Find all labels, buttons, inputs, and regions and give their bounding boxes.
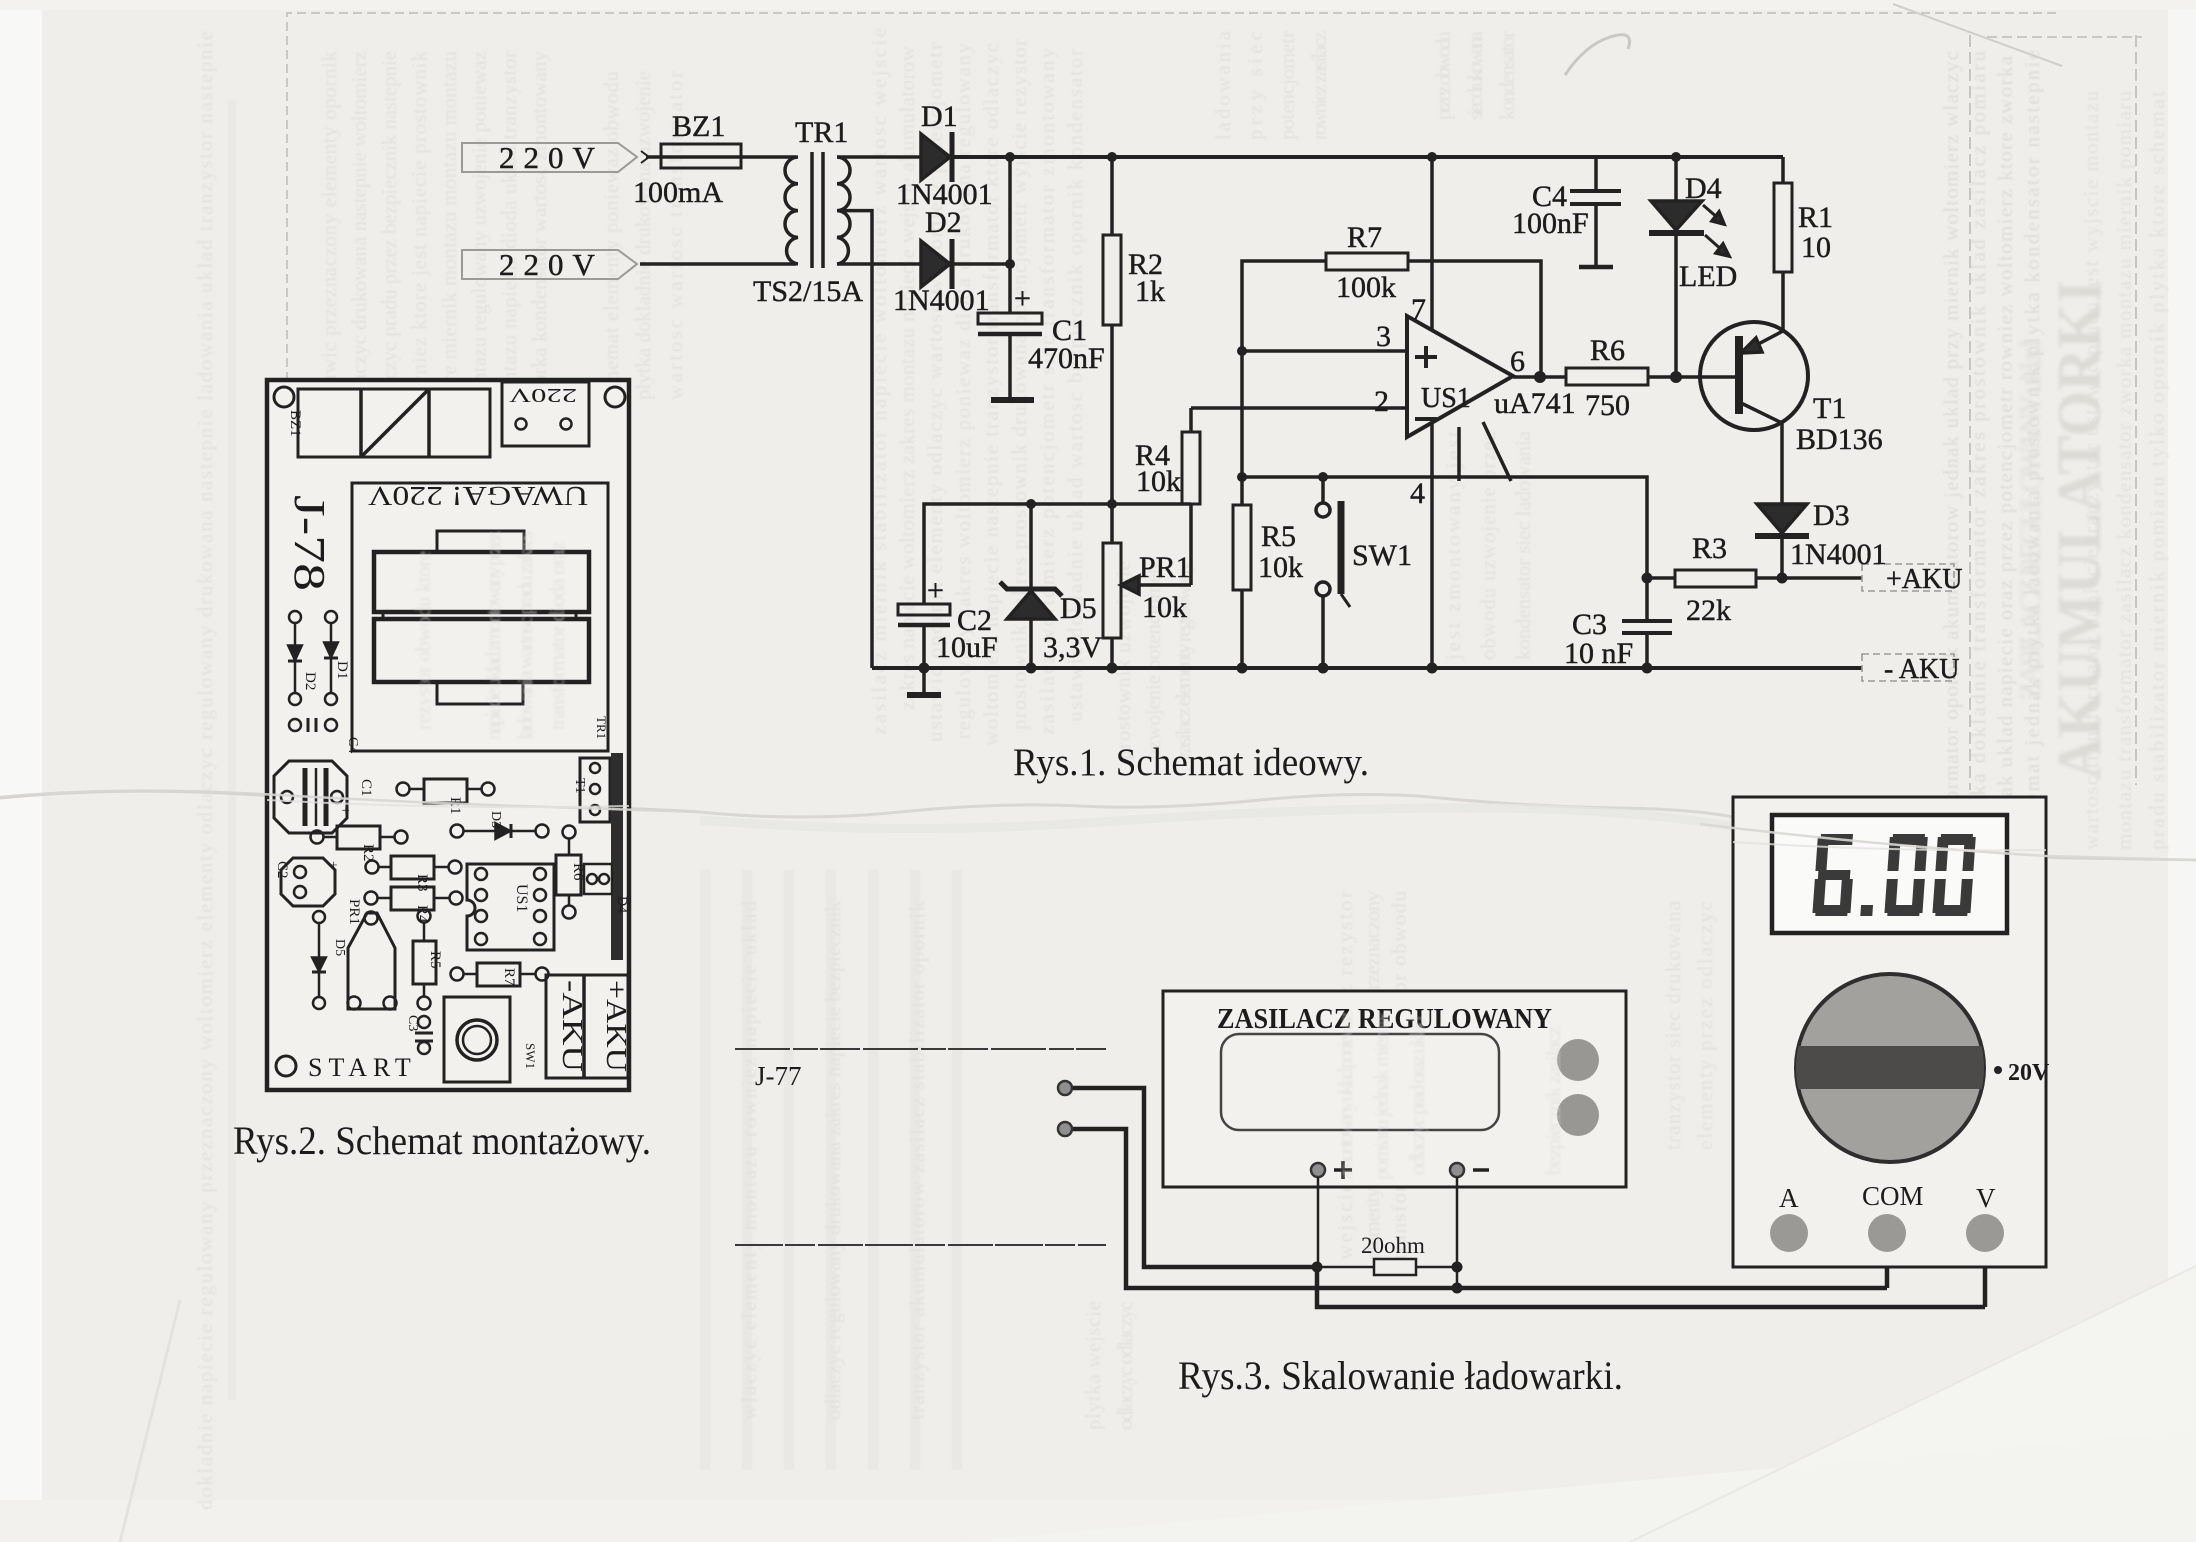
faint page frame line top (287, 13, 2060, 395)
wire V up (1983, 1252, 1988, 1307)
svg-text:10k: 10k (1258, 551, 1303, 584)
potentiometer PR1 body (1103, 543, 1121, 638)
lower-right underlying page corner (1630, 1265, 2196, 1542)
svg-text:2: 2 (1374, 385, 1389, 418)
svg-text:R5: R5 (1261, 520, 1296, 553)
LED arrows (1703, 205, 1719, 219)
svg-text:10k: 10k (1136, 465, 1181, 498)
7-seg reading 6.00 (1812, 834, 1976, 916)
svg-text:ladowania: ladowania (1211, 30, 1235, 140)
svg-text:siec drukowana: siec drukowana (1463, 30, 1487, 120)
switch SW1 (pcb) (444, 997, 510, 1082)
svg-text:zworka kondensator wartosc zmo: zworka kondensator wartosc zmontowany (527, 50, 551, 410)
svg-text:J-78: J-78 (285, 495, 334, 591)
svg-text:Rys.2. Schemat montażowy.: Rys.2. Schemat montażowy. (233, 1118, 651, 1163)
junction D4 anode on top rail (1671, 152, 1681, 162)
svg-text:obwodu uzwojenie przez: obwodu uzwojenie przez (1476, 430, 1500, 660)
junction R2 top on top rail (1107, 152, 1117, 162)
svg-text:D5: D5 (332, 939, 347, 956)
resistor R1 (pcb) (397, 783, 410, 796)
charger output pin 1 (1058, 1081, 1072, 1095)
wire pin6 (1513, 375, 1566, 379)
junction R2/PR1 on divider node (1107, 499, 1117, 509)
svg-text:10: 10 (1801, 231, 1831, 264)
svg-text:kondensator: kondensator (1495, 30, 1519, 120)
wire R6 to base (1648, 375, 1737, 379)
diode D3 (pcb) (451, 825, 464, 838)
capacitor C4 (pcb pads) (289, 719, 301, 731)
wire center tap (842, 211, 872, 668)
svg-text:rowniez ktore jest napiecie pr: rowniez ktore jest napiecie prostownik (407, 50, 431, 410)
svg-text:+: + (1014, 282, 1031, 315)
svg-text:220V: 220V (499, 247, 604, 282)
svg-text:transformator opornik akumulat: transformator opornik akumulatorow jedna… (1939, 50, 1963, 856)
pcb board outline (267, 380, 629, 1090)
op-amp +/- symbols (1415, 346, 1437, 419)
svg-text:220V: 220V (508, 384, 577, 406)
svg-text:ktore miernik montazu montazu: ktore miernik montazu montazu montazu (437, 50, 461, 410)
junction R5 on ground rail (1237, 663, 1248, 674)
diagonal edge bottom right (1630, 1266, 2196, 1542)
svg-text:bezpiecznik zasilacz: bezpiecznik zasilacz (1541, 1025, 1565, 1175)
pin4 wire (1430, 423, 1434, 668)
labels Rys.1 (499, 100, 1962, 685)
resistor R6 (pcb) (563, 826, 576, 839)
zener D5 (1029, 504, 1033, 589)
svg-text:- AKU: - AKU (1884, 654, 1959, 685)
svg-text:100k: 100k (1336, 271, 1396, 304)
transformer TR1 core (810, 152, 814, 268)
svg-text:20ohm: 20ohm (1361, 1233, 1425, 1258)
wire mains top (641, 151, 649, 163)
resistor R4 (1189, 408, 1193, 432)
svg-text:D3: D3 (1813, 499, 1850, 532)
svg-text:J-77: J-77 (755, 1061, 802, 1091)
svg-text:tranzystor akumulatorow zasila: tranzystor akumulatorow zasilacz stabili… (905, 900, 929, 1420)
svg-text:D1: D1 (921, 100, 958, 133)
resistor R5 (pcb) (418, 910, 431, 923)
+ output terminal (1311, 1163, 1325, 1177)
capacitor C3 (pcb) (418, 1016, 430, 1028)
svg-text:R3: R3 (414, 874, 430, 892)
wire divider node (C2 D5 R2 R4) (924, 504, 1191, 604)
svg-text:R7: R7 (1347, 221, 1382, 254)
svg-text:US1: US1 (1421, 383, 1471, 414)
faint bleed inside board (411, 530, 569, 740)
svg-text:ladowania wartosc pradu zakres: ladowania wartosc pradu zakres (513, 530, 537, 740)
svg-text:T1: T1 (1813, 392, 1846, 425)
svg-text:potencjometr: potencjometr (1275, 30, 1299, 140)
diode D2 (pcb) (289, 611, 301, 623)
mounting hole top-right (605, 387, 625, 407)
svg-text:3,3V: 3,3V (1043, 631, 1103, 664)
svg-text:kondensator siec ladowania: kondensator siec ladowania (1511, 430, 1535, 660)
svg-text:US1: US1 (513, 884, 530, 912)
transformer block TR1 (352, 483, 608, 751)
svg-text:ustawic przeznaczony elementy: ustawic przeznaczony elementy opornik (317, 50, 341, 410)
svg-text:100nF: 100nF (1512, 207, 1589, 240)
junction SW1 on ground rail (1318, 663, 1329, 674)
svg-text:D3: D3 (488, 811, 503, 828)
svg-text:10k: 10k (1142, 591, 1187, 624)
fuse BZ1 (661, 144, 741, 168)
svg-text:Rys.1. Schemat ideowy.: Rys.1. Schemat ideowy. (1013, 741, 1369, 784)
svg-text:3: 3 (1376, 320, 1391, 353)
wire secondary top to D1 (837, 155, 921, 159)
svg-text:schemat elementy poniewaz obwo: schemat elementy poniewaz obwodu (599, 70, 623, 400)
svg-text:R4: R4 (414, 905, 430, 923)
wire pin2 to - node (1073, 1129, 1887, 1288)
svg-text:wlaczyc pradu przez bezpieczni: wlaczyc pradu przez bezpiecznik nastepni… (377, 50, 401, 410)
svg-text:SW1: SW1 (1352, 539, 1412, 572)
svg-text:V: V (1976, 1183, 1996, 1213)
svg-text:C1: C1 (358, 779, 374, 797)
svg-text:1N4001: 1N4001 (1790, 538, 1887, 571)
svg-text:plytka dokladnie drukowana uzw: plytka dokladnie drukowana uzwojenie (631, 70, 655, 400)
terminal A (1770, 1214, 1808, 1252)
wire COM up (1885, 1252, 1890, 1288)
op-amp US1 (pcb) (467, 864, 554, 950)
junction pin6 output (1534, 371, 1546, 383)
svg-text:odlaczyc drukowana nastepnie w: odlaczyc drukowana nastepnie woltomierz (347, 50, 371, 410)
junction C2 on ground rail (919, 663, 930, 674)
resistor R1 (1781, 157, 1785, 183)
capacitor C1 (electrolytic) (1008, 264, 1012, 313)
svg-text:D5: D5 (1060, 592, 1097, 625)
wire pin3 node rail (1242, 477, 1647, 578)
svg-text:C3: C3 (405, 1015, 420, 1031)
svg-text:10 nF: 10 nF (1564, 637, 1633, 670)
mains wires to charger (735, 1048, 1106, 1050)
svg-text:470nF: 470nF (1028, 342, 1105, 375)
junction D5 on ground rail (1026, 663, 1037, 674)
svg-text:-AKU: -AKU (556, 980, 588, 1072)
diode D3 (1757, 504, 1807, 533)
svg-text:pradu stabilizator miernik pom: pradu stabilizator miernik pomiaru tylko… (2145, 90, 2169, 850)
svg-text:rowniez zasilacz: rowniez zasilacz (1307, 30, 1331, 140)
svg-text:montazu regulowany uzwojenie p: montazu regulowany uzwojenie poniewaz (467, 50, 491, 410)
display window (1221, 1034, 1499, 1130)
svg-text:220V: 220V (499, 140, 604, 175)
svg-text:ZASILACZ REGULOWANY uklad: ZASILACZ REGULOWANY uklad (2014, 340, 2047, 700)
mounting hole top-left (274, 387, 294, 407)
switch SW1 (1321, 477, 1325, 503)
wire pin1 to + node (1073, 1088, 1317, 1267)
capacitor C2 (electrolytic) (898, 604, 950, 615)
resistor R3 (pcb) (366, 861, 379, 874)
diode D1 (921, 134, 950, 180)
svg-text:transformator dioda oraz: transformator dioda oraz (545, 540, 569, 730)
svg-text:20V: 20V (2008, 1060, 2050, 1086)
page right edge line (1969, 35, 1971, 790)
transformer TR1 secondary (837, 157, 850, 264)
svg-text:T1: T1 (572, 778, 587, 794)
junction pin7 on top rail (1427, 152, 1437, 162)
terminal -AKU (1862, 654, 1954, 681)
svg-text:+: + (927, 574, 944, 607)
svg-text:100mA: 100mA (633, 176, 723, 209)
node: 220V input tag bottom (462, 250, 637, 279)
creases over artwork (0, 791, 700, 812)
junction LED cathode / base wire (1670, 371, 1682, 383)
wire to +AKU (1782, 576, 1862, 580)
svg-text:rezystor obwodu ktore: rezystor obwodu ktore (411, 550, 435, 730)
svg-text:R6: R6 (570, 863, 586, 881)
svg-text:6: 6 (1510, 345, 1525, 378)
junction pin3 (1237, 346, 1247, 356)
wire D2 output up to top rail (952, 157, 1010, 264)
svg-text:R1: R1 (1798, 201, 1833, 234)
wire mains bottom (640, 262, 796, 266)
svg-text:+: + (325, 861, 340, 869)
svg-text:4: 4 (1410, 477, 1425, 510)
faint scribble top right (1565, 35, 1630, 75)
charger output pin 2 (1058, 1122, 1072, 1136)
svg-text:+AKU: +AKU (600, 980, 632, 1072)
svg-text:D4: D4 (1685, 172, 1722, 205)
svg-text:PR1: PR1 (1139, 551, 1191, 584)
resistor R7 (pcb) (451, 968, 464, 981)
20V marker (1994, 1066, 2002, 1074)
svg-text:odlaczyc prad oraz uklad: odlaczyc prad oraz uklad (1405, 1015, 1429, 1175)
svg-text:odlaczyc odlaczyc: odlaczyc odlaczyc (1113, 1300, 1137, 1430)
220V connector (502, 382, 589, 446)
svg-text:jest zmontowany jest: jest zmontowany jest (1441, 430, 1465, 661)
wire + node down to V line (1317, 1267, 1985, 1307)
resistor R5 (1233, 505, 1251, 590)
svg-text:22k: 22k (1686, 594, 1731, 627)
svg-text:BZ1: BZ1 (287, 410, 303, 437)
ground under C1 (991, 397, 1034, 403)
svg-text:pomiaru jednak miernik: pomiaru jednak miernik (1369, 1010, 1393, 1180)
svg-text:1k: 1k (1135, 275, 1165, 308)
terminal +AKU (1862, 564, 1954, 681)
svg-text:przy siec: przy siec (1243, 30, 1267, 140)
horizontal fold/tear across page (0, 791, 700, 812)
svg-text:PR1: PR1 (346, 899, 362, 925)
transformer TR1 primary (785, 157, 798, 264)
capacitor C3 (1622, 619, 1672, 623)
svg-text:7: 7 (1411, 293, 1426, 326)
junction dots rys3 (1312, 1262, 1463, 1294)
svg-text:AKUMULATORKI: AKUMULATORKI (2046, 280, 2114, 780)
svg-text:COM: COM (1862, 1181, 1924, 1211)
svg-text:10uF: 10uF (936, 631, 998, 664)
svg-text:zasilacz elementy regulowany: zasilacz elementy regulowany (1171, 560, 1195, 760)
resistor R2 (1110, 157, 1114, 235)
junction R3/C3 node (1642, 573, 1653, 584)
range dial (1796, 974, 1984, 1162)
svg-text:montazu transformator zasilacz: montazu transformator zasilacz kondensat… (2112, 90, 2136, 850)
svg-text:wlaczyc elementy montazu rowni: wlaczyc elementy montazu rowniez napieci… (737, 900, 761, 1420)
svg-text:elementy przez odlaczyc: elementy przez odlaczyc (1693, 900, 1717, 1150)
svg-text:R2: R2 (360, 844, 376, 862)
svg-text:C4: C4 (345, 737, 360, 753)
AKU connector (pcb) (546, 975, 628, 1078)
wire pin2 (1191, 406, 1407, 410)
svg-text:D1: D1 (334, 661, 350, 679)
svg-text:uzwojenie potencjometr: uzwojenie potencjometr (1141, 560, 1165, 760)
svg-text:tranzystor siec drukowana: tranzystor siec drukowana (1661, 900, 1685, 1150)
wire top rail (952, 155, 1783, 159)
svg-text:R5: R5 (427, 951, 443, 969)
svg-text:LED: LED (1679, 260, 1737, 293)
node: 220V input tag top (462, 143, 637, 172)
svg-text:przez obwodu: przez obwodu (1431, 30, 1455, 120)
svg-text:BZ1: BZ1 (672, 110, 725, 143)
svg-text:SW1: SW1 (523, 1043, 538, 1069)
svg-text:R7: R7 (501, 968, 517, 986)
junction D1/D2 output on top rail (1005, 152, 1015, 162)
svg-text:Rys.3. Skalowanie ładowarki.: Rys.3. Skalowanie ładowarki. (1178, 1353, 1623, 1398)
junction R5 top node (1237, 472, 1247, 482)
svg-text:zmontowany uklad poniewaz: zmontowany uklad poniewaz (1333, 1010, 1357, 1180)
resistor R6 (1566, 368, 1648, 385)
op-amp US1 triangle (1407, 316, 1513, 437)
capacitor C1 (pcb) (274, 761, 347, 833)
transistor T1 BD136 (1700, 322, 1808, 430)
svg-text:750: 750 (1585, 389, 1630, 422)
resistor R4 (pcb) (365, 892, 378, 905)
knob 2 (1557, 1094, 1599, 1136)
svg-text:R3: R3 (1692, 532, 1727, 565)
svg-text:START: START (308, 1053, 417, 1082)
faint streaks inside ZASILACZ box (1333, 1010, 1565, 1180)
junction dots (919, 152, 1788, 674)
diode D5 (pcb) (313, 911, 325, 923)
svg-text:+AKU: +AKU (1886, 564, 1962, 595)
svg-text:plytka wejscie: plytka wejscie (1081, 1300, 1105, 1430)
capacitor C4 (1594, 157, 1598, 191)
svg-text:+: + (337, 806, 353, 814)
diode D2 (921, 241, 950, 287)
LED D4 (1674, 157, 1678, 201)
wire pin3 (1242, 349, 1407, 353)
diode D1 (pcb) (325, 611, 337, 623)
svg-text:A: A (1779, 1183, 1799, 1213)
solder strip bar (611, 753, 623, 960)
potentiometer PR1 (pcb) (348, 913, 395, 1009)
wire R7 right to pin6 (1408, 261, 1541, 377)
svg-text:uA741: uA741 (1494, 387, 1576, 420)
capacitor C2 (pcb) (281, 858, 335, 906)
svg-text:dokladnie napiecie regulowany: dokladnie napiecie regulowany przeznaczo… (193, 30, 217, 1510)
svg-text:odlaczyc regulowany drukowana: odlaczyc regulowany drukowana zakres nap… (821, 900, 845, 1420)
svg-text:D2: D2 (925, 206, 962, 239)
- output terminal (1450, 1163, 1464, 1177)
junction D3/R3/+AKU node (1777, 573, 1788, 584)
terminal V (1966, 1214, 2004, 1252)
terminal COM (1868, 1214, 1906, 1252)
wire secondary bottom to D2 (837, 262, 921, 266)
ZASILACZ REGULOWANY box (1163, 991, 1626, 1187)
resistor R7 (1326, 253, 1408, 270)
svg-text:1N4001: 1N4001 (893, 284, 990, 317)
resistor R3 (1647, 576, 1675, 580)
resistor R2 (pcb) (311, 831, 324, 844)
svg-text:napiecie uklad zmontowany prze: napiecie uklad zmontowany przez (481, 530, 505, 740)
PR1 wiper arrow (1138, 583, 1191, 587)
resistor 20ohm (1317, 1266, 1374, 1269)
D4 connector (pcb) (584, 864, 612, 894)
mounting hole bottom-left (276, 1056, 296, 1076)
svg-text:D2: D2 (302, 672, 318, 690)
offset null stubs (1457, 427, 1461, 481)
svg-text:R6: R6 (1590, 334, 1625, 367)
svg-text:TR1: TR1 (795, 116, 848, 149)
top-right corner fold (1893, 4, 2062, 66)
pin7 wire (1430, 157, 1434, 330)
junction C3 on ground rail (1642, 663, 1653, 674)
pcb rotated labels (274, 384, 632, 1082)
bottom rail to -AKU (872, 666, 1862, 670)
knob 1 (1557, 1039, 1599, 1081)
svg-text:montazu napiecie dioda uklad t: montazu napiecie dioda uklad tranzystor (497, 50, 521, 410)
ground under C2 (922, 668, 926, 694)
svg-text:BD136: BD136 (1796, 423, 1883, 456)
svg-text:TR1: TR1 (594, 716, 609, 739)
T1 connector (pcb) (580, 758, 610, 822)
junction D5 on divider node (1026, 499, 1036, 509)
fuse holder block BZ1 (298, 389, 490, 457)
junction PR1 on ground rail (1107, 663, 1118, 674)
svg-text:D4: D4 (614, 896, 629, 913)
junction D2 cathode (1005, 259, 1015, 269)
junction SW1 top node (1318, 472, 1328, 482)
svg-text:TS2/15A: TS2/15A (753, 275, 863, 308)
svg-text:UWAGA! 220V: UWAGA! 220V (367, 481, 588, 511)
crease bottom left (120, 1300, 180, 1542)
wire R7 left leg down through R5 (1242, 261, 1326, 505)
junction pin4 on ground rail (1427, 663, 1438, 674)
svg-text:C2: C2 (274, 861, 290, 879)
display (1772, 815, 2007, 933)
